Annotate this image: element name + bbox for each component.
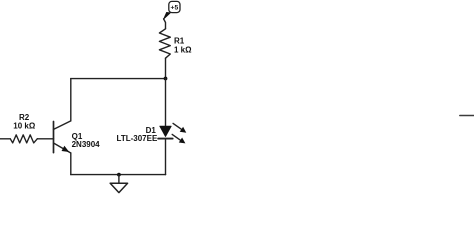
stray wire right edge: [460, 115, 474, 117]
power flag +5: [169, 1, 180, 12]
power flag tail: [163, 12, 170, 19]
resistor R1: [159, 29, 170, 58]
ground triangle: [110, 183, 127, 192]
wire from flag to R1: [164, 19, 166, 29]
svg-text:10 kΩ: 10 kΩ: [13, 122, 36, 131]
ground stem: [118, 175, 120, 184]
wire R2 left lead: [0, 138, 10, 140]
transistor Q1 base bar: [53, 122, 55, 153]
LED D1 cathode bar: [158, 138, 172, 140]
svg-text:+5: +5: [171, 5, 179, 12]
wire collector vertical: [70, 79, 72, 121]
transistor Q1 emitter diagonal: [54, 143, 71, 153]
wire base: [37, 138, 53, 140]
transistor Q1 collector diagonal: [54, 121, 71, 129]
svg-text:R1: R1: [174, 37, 185, 46]
resistor R2: [10, 135, 37, 143]
wire emitter vertical: [70, 153, 72, 175]
svg-text:2N3904: 2N3904: [72, 140, 101, 149]
svg-text:R2: R2: [19, 113, 30, 122]
transistor Q1 emitter arrow: [62, 146, 70, 152]
wire LED to bottom: [165, 139, 167, 175]
LED light arrow 1: [173, 123, 181, 129]
svg-text:LTL-307EE: LTL-307EE: [117, 134, 158, 143]
svg-text:1 kΩ: 1 kΩ: [174, 45, 192, 54]
wire bottom horizontal: [71, 174, 166, 176]
ground junction dot: [117, 173, 121, 177]
LED D1 triangle: [160, 126, 171, 136]
wire R1 to node: [165, 58, 167, 78]
wire node to LED: [165, 79, 167, 127]
node junction dot: [164, 77, 168, 81]
LED light arrow 2: [172, 134, 180, 140]
wire node horizontal: [71, 78, 166, 80]
